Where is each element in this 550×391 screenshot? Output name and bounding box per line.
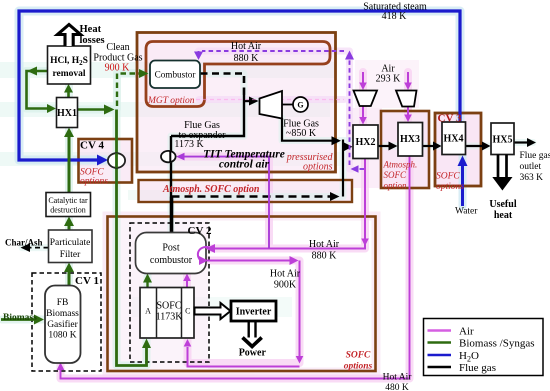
svg-text:SOFC: SOFC — [156, 301, 181, 312]
wire: HX2 to HX3 — [378, 145, 390, 147]
component: inverter box — [231, 301, 276, 321]
svg-text:destruction: destruction — [50, 206, 86, 215]
option box: big SOFC options box — [108, 217, 376, 372]
wire: flue gas into post combustor — [170, 197, 174, 233]
svg-text:CV 2: CV 2 — [188, 225, 212, 237]
wire: HX1 clean product gas out to junction — [78, 108, 107, 111]
svg-text:418 K: 418 K — [382, 11, 408, 22]
component: HX3 box — [398, 123, 423, 157]
wire: blower to HX2 — [362, 106, 364, 117]
option box: MGT option L-shaped outline — [146, 42, 330, 107]
legend box — [424, 319, 544, 376]
svg-text:Combustor: Combustor — [155, 70, 196, 80]
component: catalytic tar destruction box — [46, 193, 91, 217]
svg-text:Inverter: Inverter — [236, 307, 272, 318]
wire: TIT control air branch to flue node — [183, 157, 269, 249]
svg-text:options: options — [436, 182, 464, 192]
svg-text:FB: FB — [57, 298, 69, 308]
control volume CV 3 box — [435, 113, 481, 186]
wire: HX3 to HX4 — [423, 145, 435, 147]
component: HX2 box — [353, 125, 378, 159]
component: air blower funnel right — [396, 91, 417, 107]
node: steam injection arrowhead into node — [97, 155, 108, 166]
node: steam mixing node circle — [108, 153, 125, 168]
component: SOFC anode divider — [156, 288, 158, 339]
wire: hot air 880K from HX2 down and to post combustor coil — [212, 159, 365, 249]
wire: char ash dashed out of filter — [28, 247, 49, 249]
icon: SOFC to inverter hollow arrow — [195, 303, 231, 319]
svg-text:heat: heat — [494, 210, 513, 221]
svg-text:SOFC: SOFC — [436, 172, 460, 182]
wire: hot air 900K to SOFC cathode — [188, 261, 300, 367]
component: SOFC cathode divider — [181, 288, 183, 339]
svg-text:SOFC: SOFC — [384, 170, 407, 180]
svg-text:options: options — [303, 162, 333, 173]
svg-text:Atmosph. SOFC option: Atmosph. SOFC option — [162, 184, 260, 195]
control volume CV 2 dashed box — [130, 223, 209, 362]
wire: syngas main line down through steam node to SOFC anode — [117, 110, 147, 366]
svg-text:Hot Air: Hot Air — [231, 41, 262, 52]
legend: biomass syngas line — [428, 341, 452, 343]
svg-text:CV 3: CV 3 — [438, 113, 462, 125]
icon: power hollow arrow down — [249, 321, 256, 338]
component: expander turbine — [260, 91, 283, 119]
wire: HCl removal left loop back to HX1 — [27, 71, 49, 109]
svg-text:CV 1: CV 1 — [75, 275, 99, 287]
svg-text:Water: Water — [455, 207, 478, 217]
icon: useful heat hollow arrow down — [498, 155, 507, 178]
wire: SOFC anode outlet to post combustor — [146, 280, 148, 288]
svg-text:Air: Air — [459, 326, 474, 338]
svg-text:900 K: 900 K — [105, 63, 131, 74]
wire: pressurised hot air dashed from HX2 to combustor — [357, 168, 364, 170]
svg-text:Clean: Clean — [106, 42, 129, 53]
svg-text:1173 K: 1173 K — [174, 139, 204, 150]
svg-text:C: C — [185, 307, 190, 316]
component: HX4 box — [442, 122, 466, 155]
svg-text:MGT option: MGT option — [147, 96, 195, 106]
svg-text:Hot Air: Hot Air — [383, 373, 413, 383]
svg-text:363 K: 363 K — [520, 173, 544, 183]
svg-text:G: G — [297, 101, 303, 110]
svg-text:Filter: Filter — [60, 250, 81, 260]
svg-text:Gasifier: Gasifier — [47, 319, 78, 330]
wire: faint pink dashed MGT line — [196, 99, 344, 101]
component: air blower funnel left — [354, 91, 378, 107]
control volume CV 4 box — [79, 139, 133, 183]
option box: pressurised options outer box — [137, 33, 336, 173]
svg-text:Post: Post — [162, 243, 179, 254]
svg-text:Flue gas: Flue gas — [459, 362, 496, 374]
wire: HX1 to HCl H2S removal — [67, 90, 70, 98]
wire: HX4 to HX5 — [466, 145, 484, 147]
svg-text:880 K: 880 K — [234, 53, 260, 64]
svg-text:Char/Ash: Char/Ash — [5, 238, 43, 248]
wire: expander exhaust to HX2 — [282, 118, 333, 141]
component: HX5 box — [491, 123, 514, 155]
svg-text:Hot Air: Hot Air — [309, 239, 340, 250]
svg-text:880 K: 880 K — [312, 251, 338, 262]
svg-text:Atmosph.: Atmosph. — [383, 160, 418, 170]
wire: atmospheric bypass dashed flue line — [172, 195, 333, 198]
component: SOFC stack box — [140, 288, 194, 339]
wire: hot air 480K from HX3 to gasifier fluidising — [61, 156, 410, 379]
wire: water feed to HX4 — [461, 162, 464, 206]
svg-text:Biomass /Syngas: Biomass /Syngas — [459, 338, 534, 350]
legend: H2O line — [428, 354, 452, 356]
wire: flue gas combustor to expander dashed — [201, 74, 245, 96]
wire: expander shaft to generator — [282, 104, 293, 106]
control volume CV 1 dashed box — [32, 273, 101, 371]
wire: gasifier to particulate filter — [68, 270, 71, 286]
component: particulate filter box — [49, 230, 93, 263]
svg-text:HCl, H2S: HCl, H2S — [50, 56, 88, 67]
svg-text:Useful: Useful — [489, 199, 516, 210]
svg-text:HX1: HX1 — [57, 108, 77, 119]
svg-text:combustor: combustor — [150, 255, 193, 266]
svg-text:Catalytic tar: Catalytic tar — [48, 196, 88, 205]
icon: heat losses hollow arrow — [58, 25, 81, 47]
component: combustor box — [150, 61, 200, 89]
svg-text:1173K: 1173K — [156, 312, 184, 323]
svg-text:Power: Power — [239, 348, 267, 359]
svg-text:Flue gas: Flue gas — [520, 151, 550, 161]
svg-text:CV 4: CV 4 — [80, 140, 104, 152]
wire: catalytic tar destruction to HX1 — [68, 134, 71, 193]
svg-text:900K: 900K — [274, 280, 297, 291]
wire: particulate filter to catalytic tar destruction — [68, 223, 71, 230]
node: TIT control air mixing node circle — [161, 151, 176, 162]
svg-text:options: options — [80, 177, 108, 187]
svg-text:Biomass: Biomass — [3, 313, 37, 323]
wire: air inlet arrows above blowers — [362, 72, 364, 84]
wire: biomass feed arrow into gasifier — [1, 318, 36, 321]
wire: flue riser to HX2 — [342, 140, 344, 197]
svg-text:HX3: HX3 — [400, 134, 420, 145]
svg-text:Biomass: Biomass — [46, 309, 79, 319]
svg-text:losses: losses — [80, 35, 105, 46]
svg-text:control air: control air — [219, 159, 270, 171]
component: HCl H2S removal box — [48, 46, 91, 84]
legend: air line — [428, 329, 452, 331]
svg-text:Particulate: Particulate — [50, 238, 91, 248]
svg-text:HX5: HX5 — [493, 135, 513, 146]
option box: Atmosph. SOFC option strip box — [139, 180, 353, 202]
svg-text:480 K: 480 K — [385, 383, 409, 391]
svg-text:outlet: outlet — [520, 162, 542, 172]
component: FB biomass gasifier vessel — [45, 286, 81, 364]
component: HX1 box — [57, 98, 78, 128]
svg-text:options: options — [344, 362, 373, 372]
wire: clean product gas dashed branch to combustor — [117, 74, 140, 107]
option box: Atmosph SOFC option box around HX3 — [381, 111, 429, 188]
svg-text:Hot Air: Hot Air — [270, 269, 301, 280]
wire: hot air coil loop through post combustor — [198, 244, 215, 265]
svg-text:SOFC: SOFC — [346, 351, 371, 361]
svg-text:HX4: HX4 — [444, 134, 464, 145]
legend: flue gas line — [428, 366, 452, 368]
svg-text:A: A — [145, 307, 151, 316]
svg-text:1080 K: 1080 K — [48, 331, 76, 341]
component: post combustor vessel — [136, 233, 207, 274]
wire: blower to HX3 — [407, 107, 409, 116]
component: generator G circle — [293, 97, 308, 112]
svg-text:removal: removal — [52, 69, 85, 79]
wire: H2O saturated steam loop HX4 to steam node — [19, 11, 460, 160]
wire: flue gas outlet from HX5 — [514, 141, 528, 143]
svg-text:HX2: HX2 — [356, 137, 376, 148]
svg-text:option: option — [384, 181, 408, 191]
svg-text:Heat: Heat — [80, 24, 102, 35]
svg-text:293 K: 293 K — [376, 74, 402, 85]
wire: flue gas riser from post combustor to expander — [171, 94, 244, 197]
wire: cathode outlet to post combustor — [186, 280, 188, 288]
svg-text:~850 K: ~850 K — [286, 128, 317, 139]
